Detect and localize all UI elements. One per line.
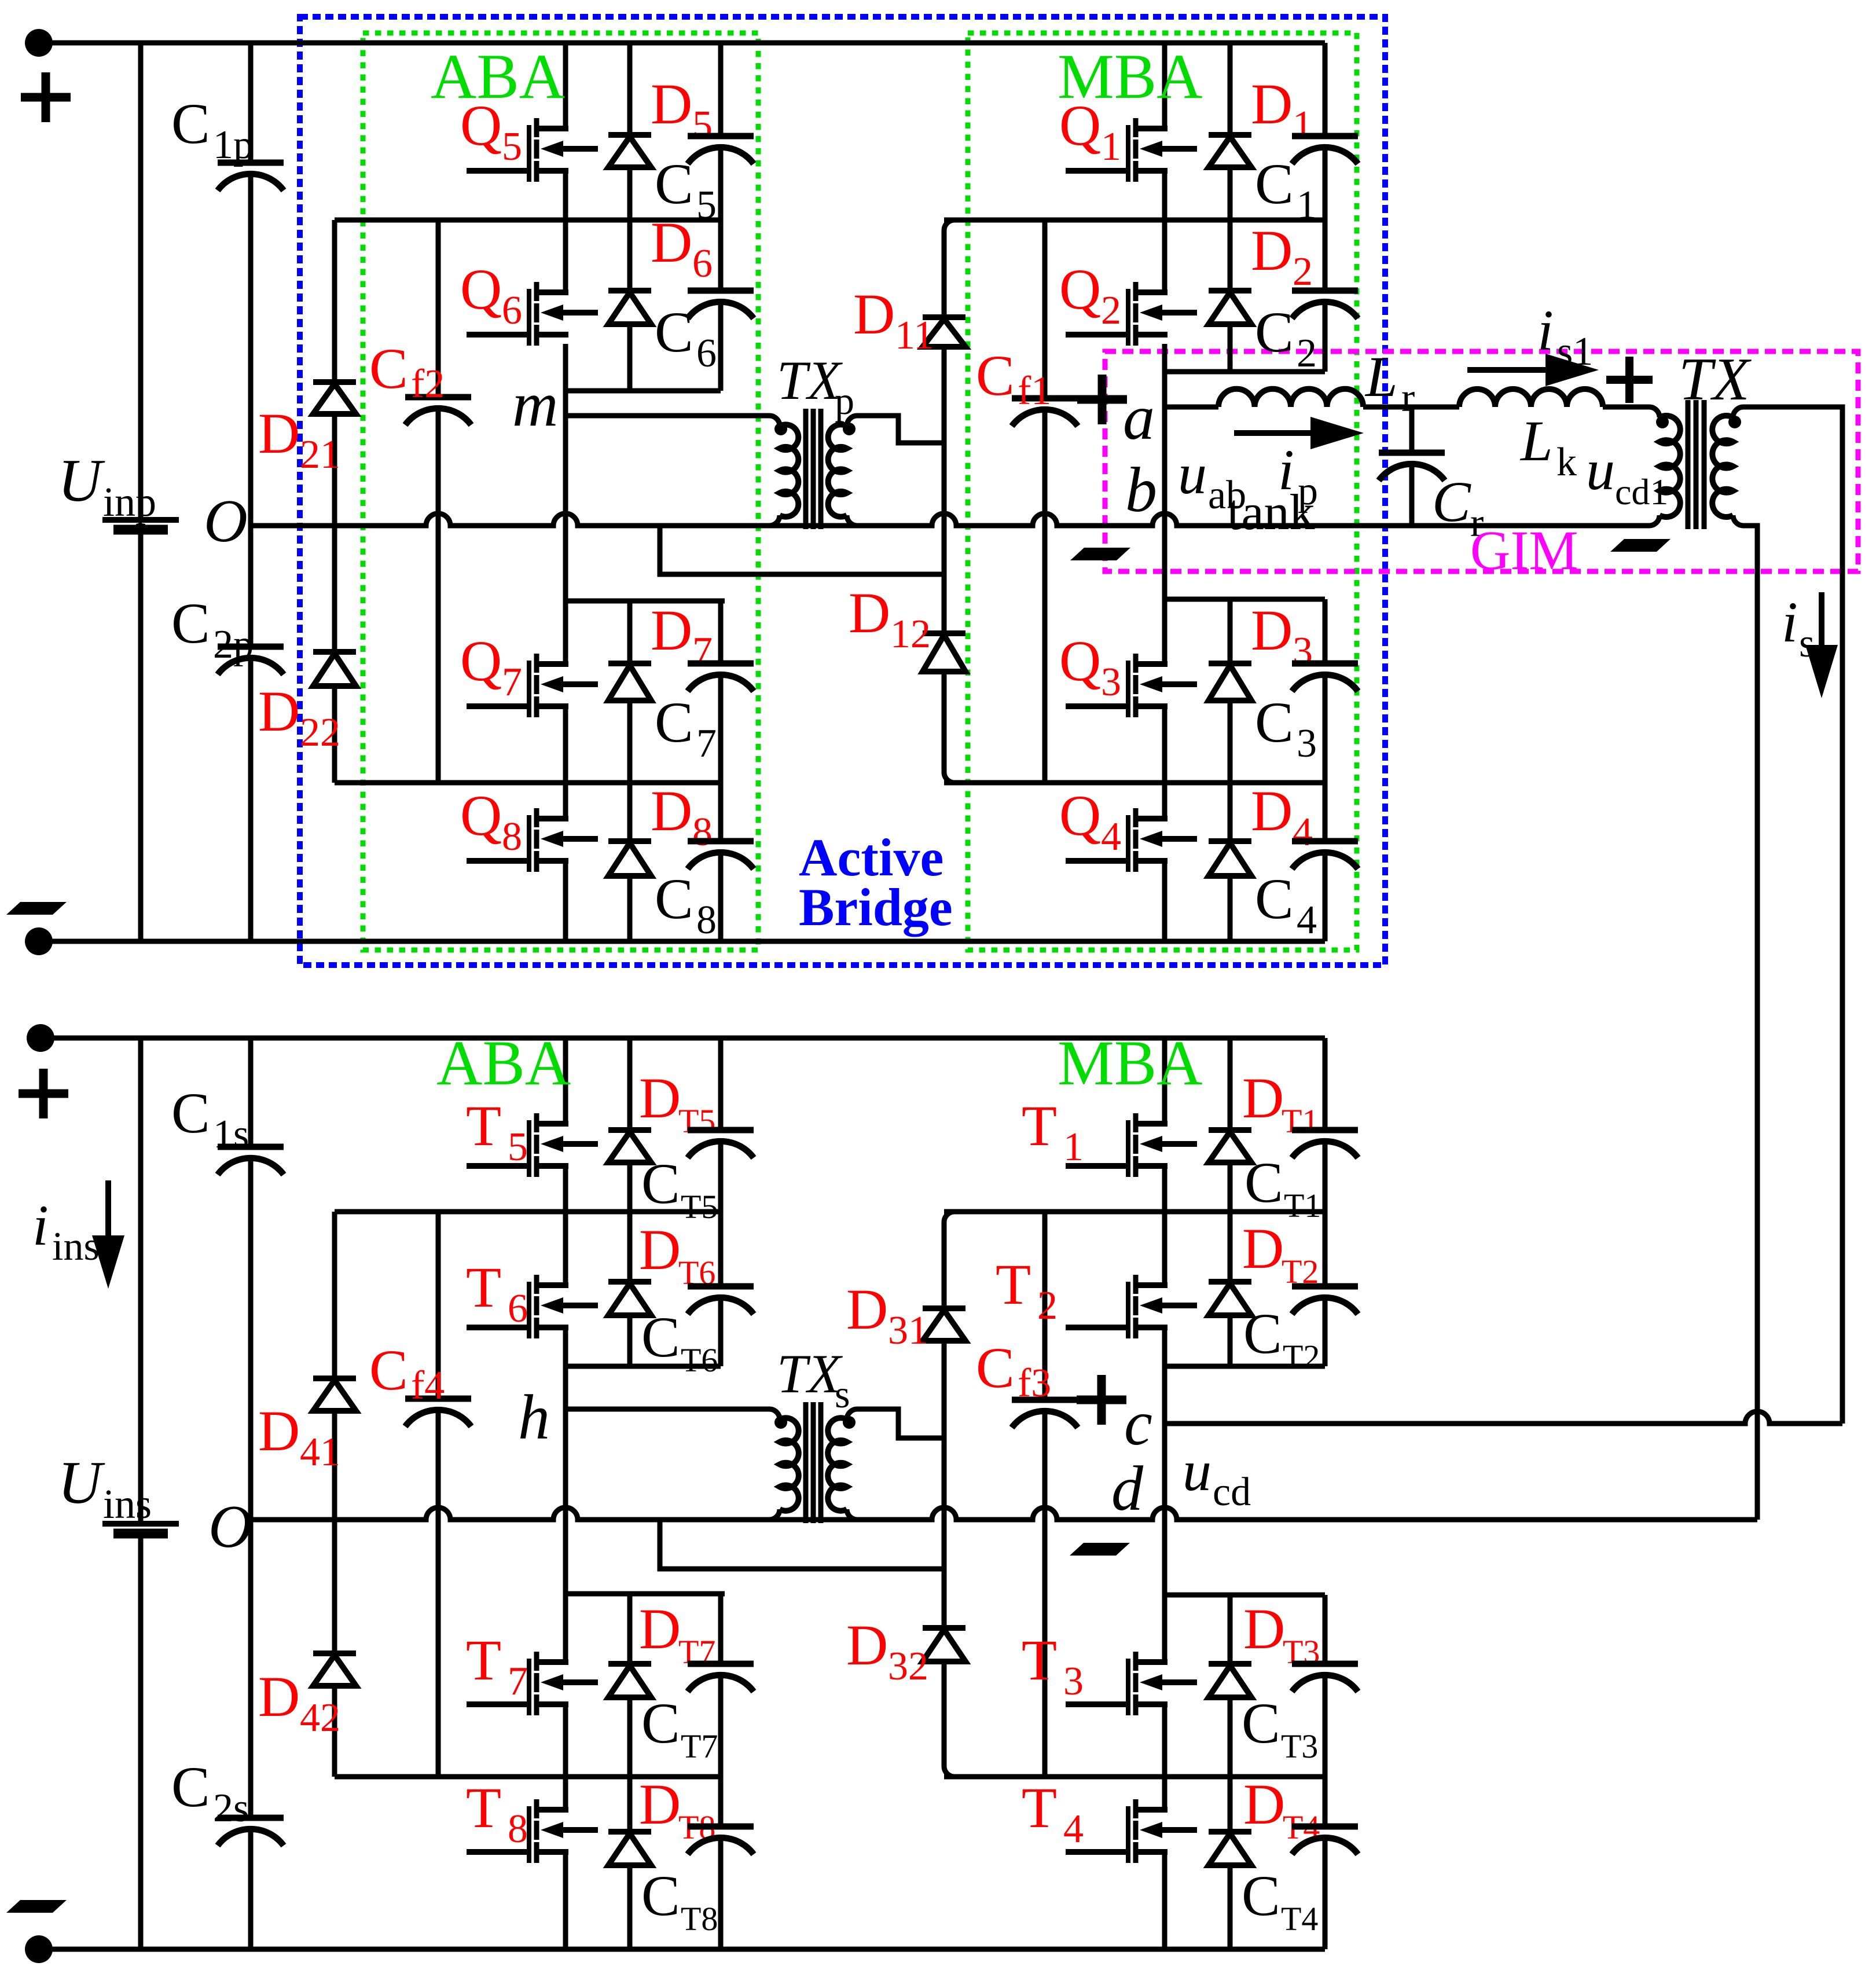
svg-text:42: 42	[300, 1696, 340, 1740]
transistor T7	[527, 1659, 531, 1715]
svg-text:U: U	[58, 446, 105, 514]
diode D8	[627, 783, 633, 841]
svg-text:u: u	[1183, 1439, 1211, 1503]
capacitor CT7	[718, 1594, 724, 1664]
transistor Q4	[1126, 815, 1130, 872]
transformer TXs core	[803, 1402, 809, 1523]
svg-text:1: 1	[1293, 103, 1313, 148]
transformer TX primary winding	[1649, 407, 1660, 417]
wire Lk to TX	[1603, 405, 1649, 410]
wire bottom rail (negative bus, primary)	[39, 939, 1325, 944]
capacitor C7	[718, 601, 724, 663]
transistor T2	[1126, 1282, 1130, 1338]
svg-text:3: 3	[1297, 721, 1317, 766]
svg-text:D: D	[258, 1664, 300, 1729]
wire secondary ABA leg column segments	[563, 1038, 568, 1124]
arrow i_s	[1819, 592, 1824, 663]
svg-text:C: C	[655, 300, 693, 364]
transformer TXp core	[803, 409, 809, 529]
svg-text:8: 8	[508, 1807, 528, 1851]
svg-text:D: D	[849, 581, 890, 645]
wire D3/C3 cell top rail	[1165, 597, 1325, 602]
svg-text:Bridge: Bridge	[799, 878, 953, 937]
wire auxiliary link O-rail to diode column (primary)	[660, 526, 944, 574]
diode D7	[627, 601, 633, 663]
svg-text:D: D	[1243, 1772, 1285, 1836]
svg-text:f4: f4	[411, 1363, 445, 1408]
transformer TXs polarity dots	[774, 1416, 787, 1429]
wire D11-D12 column mid segment	[942, 443, 947, 574]
inductor L_r	[1218, 389, 1363, 407]
wire mid-rail ABA upper (Q5 source / Q6 drain)	[335, 218, 721, 223]
svg-text:1: 1	[1297, 183, 1317, 228]
svg-text:4: 4	[1297, 898, 1317, 942]
capacitor C_f2 column	[436, 220, 441, 397]
svg-text:GIM: GIM	[1470, 519, 1578, 581]
svg-text:C: C	[1243, 1301, 1282, 1366]
arrow i_ins	[105, 1180, 111, 1254]
transformer TXp secondary winding	[847, 416, 857, 426]
svg-text:8: 8	[692, 810, 713, 854]
svg-text:1p: 1p	[213, 123, 254, 167]
svg-text:D: D	[651, 210, 692, 274]
transistor T4	[1126, 1806, 1130, 1863]
svg-text:Q: Q	[460, 783, 502, 848]
diode DT5 with leads	[627, 1038, 633, 1130]
svg-text:s: s	[1799, 621, 1815, 666]
svg-text:2p: 2p	[213, 622, 254, 667]
capacitor C_f1 column	[1042, 220, 1048, 398]
wire m node line	[566, 413, 769, 419]
svg-text:T7: T7	[681, 1727, 718, 1765]
svg-text:D: D	[1251, 218, 1293, 283]
svg-text:MBA: MBA	[1058, 41, 1203, 112]
svg-text:C: C	[171, 1755, 210, 1819]
svg-text:7: 7	[502, 660, 522, 705]
capacitor CT4	[1323, 1777, 1328, 1826]
svg-text:D: D	[258, 679, 300, 743]
svg-text:T: T	[1022, 1094, 1057, 1158]
transformer TX polarity dots	[1656, 416, 1669, 428]
wire TX secondary top lead to is line	[1743, 407, 1842, 1424]
svg-text:TX: TX	[1679, 345, 1752, 413]
capacitor CT8	[718, 1777, 724, 1826]
svg-text:ABA: ABA	[431, 41, 565, 112]
transistor T8	[527, 1806, 531, 1863]
wire Lr to Cr junction	[1363, 405, 1459, 410]
svg-text:T1: T1	[1284, 1187, 1321, 1224]
svg-text:k: k	[1556, 440, 1577, 485]
svg-text:1s: 1s	[213, 1112, 249, 1157]
svg-text:8: 8	[502, 815, 522, 859]
svg-text:p: p	[835, 379, 854, 423]
svg-text:D: D	[639, 1597, 681, 1661]
svg-text:C: C	[1244, 1150, 1283, 1215]
svg-text:3: 3	[1101, 660, 1121, 705]
minus sign u_cd1	[1610, 539, 1671, 552]
svg-text:T: T	[1022, 1776, 1057, 1840]
battery U_ins	[138, 1038, 144, 1521]
capacitor C_2s	[248, 1520, 254, 1818]
plus sign input secondary	[19, 1090, 68, 1098]
svg-text:C: C	[1255, 300, 1294, 364]
svg-text:32: 32	[888, 1644, 928, 1689]
svg-text:D: D	[1243, 1597, 1285, 1661]
diode D2	[1228, 220, 1233, 291]
svg-text:D: D	[846, 1613, 888, 1677]
svg-text:cd: cd	[1213, 1470, 1251, 1514]
svg-text:8: 8	[696, 898, 717, 942]
wire D31-D32 column mid segment	[942, 1438, 947, 1569]
wire mid-rail secondary MBA upper	[944, 1209, 1325, 1215]
svg-text:ins: ins	[52, 1224, 100, 1269]
svg-text:T5: T5	[681, 1188, 718, 1226]
svg-text:T4: T4	[1281, 1900, 1318, 1938]
svg-text:ABA: ABA	[436, 1028, 571, 1098]
minus sign input secondary	[6, 1900, 67, 1913]
wire bottom rail (secondary)	[39, 1947, 1325, 1952]
capacitor C_f3 column	[1042, 1212, 1048, 1400]
svg-text:tank: tank	[1227, 485, 1315, 541]
svg-text:c: c	[1124, 1388, 1152, 1458]
capacitor C8	[718, 783, 724, 841]
diode D41 with column	[332, 1212, 337, 1378]
arrow i_p	[1234, 430, 1329, 436]
capacitor C4	[1323, 783, 1328, 841]
svg-text:f1: f1	[1018, 369, 1051, 413]
svg-text:i: i	[32, 1193, 49, 1257]
svg-text:D: D	[651, 72, 692, 136]
svg-text:C: C	[1432, 470, 1471, 534]
svg-text:D: D	[1251, 598, 1293, 662]
capacitor C_r	[1409, 407, 1415, 453]
svg-text:C: C	[171, 1081, 210, 1145]
capacitor C_1p	[248, 43, 254, 163]
svg-text:ins: ins	[103, 1481, 152, 1527]
svg-text:Q: Q	[460, 629, 502, 693]
svg-text:u: u	[1586, 438, 1615, 502]
svg-text:cd1: cd1	[1615, 471, 1668, 512]
capacitor C_2p	[248, 526, 254, 647]
svg-text:f2: f2	[411, 362, 445, 406]
wire h node line	[566, 1407, 769, 1412]
svg-text:D: D	[651, 779, 692, 843]
svg-text:5: 5	[696, 183, 717, 228]
svg-text:m: m	[512, 369, 558, 439]
battery U_inp	[138, 43, 144, 517]
svg-text:2: 2	[1101, 288, 1121, 333]
svg-text:D: D	[1242, 1066, 1284, 1130]
transformer TXs secondary winding	[847, 1409, 857, 1420]
svg-text:C: C	[976, 1336, 1015, 1400]
svg-text:C: C	[655, 690, 693, 754]
transistor Q5	[527, 125, 531, 182]
capacitor CT5	[718, 1038, 724, 1130]
svg-text:3: 3	[1293, 629, 1313, 674]
capacitor C_f4 column	[436, 1212, 441, 1399]
green dashed box ABA (primary)	[363, 33, 758, 950]
capacitor C_1s	[248, 1038, 254, 1147]
svg-text:D: D	[639, 1772, 681, 1836]
svg-text:T1: T1	[1282, 1102, 1319, 1140]
minus sign u_cd	[1070, 1543, 1130, 1556]
svg-text:T: T	[466, 1628, 501, 1692]
svg-text:T6: T6	[681, 1341, 718, 1379]
svg-text:D: D	[258, 1399, 300, 1463]
svg-text:1: 1	[1101, 124, 1121, 169]
diode D22	[313, 649, 356, 655]
svg-text:C: C	[1242, 1864, 1280, 1928]
svg-text:C: C	[369, 336, 408, 401]
wire secondary MBA leg column segments	[1162, 1038, 1168, 1124]
svg-text:12: 12	[890, 612, 931, 656]
svg-text:C: C	[1255, 867, 1294, 931]
svg-text:O: O	[204, 487, 248, 555]
diode DT1 with leads	[1228, 1038, 1233, 1130]
svg-text:C: C	[655, 152, 693, 216]
svg-text:MBA: MBA	[1058, 1028, 1203, 1098]
diode DT4	[1228, 1777, 1233, 1832]
svg-text:T: T	[996, 1252, 1031, 1316]
wire TXp secondary top lead	[857, 416, 944, 443]
capacitor CT1	[1323, 1038, 1328, 1130]
wire DT7/CT7 cell top rail	[566, 1591, 725, 1597]
diode D5 with leads	[627, 43, 633, 135]
transformer TX secondary winding	[1733, 407, 1743, 417]
svg-text:T3: T3	[1281, 1727, 1318, 1765]
transistor Q3	[1126, 661, 1130, 717]
diode D11 with column	[944, 220, 954, 317]
svg-text:2s: 2s	[213, 1786, 249, 1831]
diode D4	[1228, 783, 1233, 841]
svg-text:L: L	[1364, 344, 1398, 409]
node: top-left terminal dot	[25, 29, 53, 57]
minus sign input primary	[6, 902, 67, 915]
minus sign u_ab	[1070, 548, 1130, 560]
magenta dashed box GIM	[1105, 351, 1858, 571]
diode D42	[313, 1650, 356, 1656]
svg-text:inp: inp	[103, 479, 156, 525]
wire D6/C6 cell bottom rail	[566, 388, 721, 394]
svg-text:C: C	[1242, 1691, 1280, 1755]
green dashed box MBA (primary)	[968, 33, 1357, 950]
svg-text:2: 2	[1037, 1283, 1058, 1328]
diode DT3	[1228, 1595, 1233, 1664]
wire DT2/CT2 cell bottom rail	[1165, 1364, 1325, 1369]
transistor Q6	[527, 289, 531, 346]
capacitor C1	[1323, 43, 1328, 136]
capacitor C3	[1323, 599, 1328, 663]
diode D32	[942, 1569, 947, 1628]
svg-text:T: T	[1022, 1628, 1057, 1692]
wire auxiliary link O-rail to diode column (secondary)	[660, 1520, 944, 1569]
node: bottom-left dot (secondary)	[25, 1935, 53, 1963]
wire MBA leg column segments	[1162, 43, 1168, 129]
svg-text:s: s	[835, 1372, 850, 1416]
svg-text:6: 6	[692, 241, 713, 286]
svg-text:s1: s1	[1557, 329, 1593, 374]
diode DT8	[627, 1777, 633, 1832]
wire mid-rail secondary ABA upper	[335, 1209, 721, 1215]
svg-text:D: D	[846, 1277, 888, 1341]
svg-text:a: a	[1123, 382, 1155, 453]
transistor T1	[1126, 1120, 1130, 1177]
svg-text:d: d	[1111, 1453, 1144, 1524]
svg-text:41: 41	[300, 1430, 340, 1474]
svg-text:D: D	[1251, 72, 1293, 136]
svg-text:T8: T8	[681, 1900, 718, 1938]
svg-text:T: T	[466, 1776, 501, 1840]
svg-text:5: 5	[502, 124, 522, 169]
transistor Q7	[527, 661, 531, 717]
transformer TXs primary winding	[769, 1409, 780, 1420]
wire O rail (secondary) / d rail	[251, 1507, 1757, 1520]
svg-text:7: 7	[692, 629, 713, 674]
svg-text:3: 3	[1063, 1659, 1084, 1704]
svg-text:6: 6	[696, 331, 717, 376]
svg-text:D: D	[853, 282, 895, 346]
svg-text:T5: T5	[678, 1102, 715, 1140]
wire mid-rail MBA upper (Q1 source / Q2 drain)	[944, 218, 1325, 223]
svg-text:7: 7	[696, 721, 717, 766]
svg-text:C: C	[641, 1151, 680, 1216]
node: lower-left terminal dot (secondary)	[27, 1024, 54, 1052]
transistor Q2	[1126, 289, 1130, 346]
diode DT2	[1228, 1212, 1233, 1282]
svg-text:i: i	[1537, 298, 1554, 362]
svg-text:h: h	[518, 1382, 550, 1453]
wire TX secondary bottom lead down	[1743, 526, 1757, 1520]
svg-text:D: D	[639, 1066, 681, 1130]
diode DT7	[627, 1594, 633, 1664]
svg-text:D: D	[1251, 779, 1293, 843]
capacitor CT3	[1323, 1595, 1328, 1664]
svg-text:4: 4	[1101, 815, 1121, 859]
blue dashed box Active Bridge	[300, 17, 1385, 965]
wire TXs secondary top lead	[857, 1409, 944, 1438]
svg-text:C: C	[171, 91, 210, 156]
svg-text:7: 7	[508, 1659, 528, 1704]
svg-text:4: 4	[1063, 1807, 1084, 1851]
svg-text:C: C	[1255, 152, 1294, 216]
wire mid-rail secondary ABA lower	[335, 1774, 721, 1780]
plus sign u_cd	[1077, 1396, 1126, 1404]
diode D31 with column	[944, 1212, 954, 1308]
svg-text:C: C	[655, 867, 693, 931]
wire ABA leg column segments	[563, 43, 568, 129]
svg-text:D: D	[651, 598, 692, 662]
svg-text:U: U	[58, 1448, 105, 1516]
svg-text:D: D	[639, 1217, 681, 1282]
svg-text:O: O	[208, 1492, 252, 1560]
wire O rail (primary midpoint)	[251, 513, 1649, 526]
svg-text:i: i	[1782, 590, 1798, 654]
svg-text:f3: f3	[1018, 1361, 1051, 1406]
diode D6	[627, 220, 633, 291]
svg-text:C: C	[171, 591, 210, 655]
wire DT3/CT3 cell top rail	[1165, 1593, 1325, 1598]
plus sign input primary	[21, 93, 71, 102]
svg-text:6: 6	[502, 288, 522, 333]
svg-text:Q: Q	[460, 257, 502, 321]
svg-text:Q: Q	[1059, 783, 1101, 848]
svg-text:21: 21	[300, 432, 340, 477]
diode D21 with column	[332, 220, 337, 382]
svg-text:Q: Q	[1059, 629, 1101, 693]
wire mid-rail MBA lower (Q3 source / Q4 drain)	[944, 780, 1325, 786]
plus sign u_ab	[1077, 395, 1127, 404]
capacitor CT6	[718, 1212, 724, 1286]
svg-text:T2: T2	[1283, 1338, 1320, 1376]
diode D12	[942, 574, 947, 633]
transformer TXp polarity dots	[774, 423, 787, 435]
svg-text:D: D	[258, 401, 300, 465]
capacitor C6	[718, 220, 724, 291]
svg-text:C: C	[1255, 690, 1294, 754]
svg-text:31: 31	[888, 1308, 928, 1353]
transistor T3	[1126, 1659, 1130, 1715]
svg-text:C: C	[641, 1864, 680, 1928]
svg-text:Q: Q	[1059, 257, 1101, 321]
svg-text:T: T	[466, 1094, 501, 1158]
wire D7/C7 cell top rail	[566, 599, 725, 604]
svg-text:6: 6	[508, 1286, 528, 1331]
node: bottom-left terminal dot	[25, 927, 53, 955]
transformer TXp primary winding	[769, 416, 780, 426]
capacitor CT2	[1323, 1212, 1328, 1286]
svg-text:C: C	[976, 343, 1015, 408]
wire mid-rail ABA lower (Q7 source / Q8 drain)	[335, 780, 721, 786]
svg-text:D: D	[1242, 1216, 1284, 1281]
wire D2/C2 cell bottom rail	[1165, 369, 1325, 375]
wire c node line to TX secondary	[1165, 1411, 1842, 1424]
svg-text:C: C	[641, 1691, 680, 1755]
capacitor C5	[718, 43, 724, 136]
plus sign u_cd1	[1606, 376, 1653, 384]
svg-text:TX: TX	[777, 350, 843, 411]
svg-text:2: 2	[1293, 250, 1313, 294]
svg-text:5: 5	[508, 1125, 528, 1169]
wire mid-rail secondary MBA lower	[944, 1774, 1325, 1780]
capacitor C2	[1323, 220, 1328, 291]
wire a node line to tank	[1165, 405, 1218, 410]
svg-text:TX: TX	[777, 1343, 843, 1404]
arrow i_s1	[1467, 367, 1564, 373]
diode D3	[1228, 599, 1233, 663]
transistor T6	[527, 1282, 531, 1338]
svg-text:5: 5	[692, 103, 713, 148]
transistor T5	[527, 1120, 531, 1177]
svg-text:11: 11	[895, 313, 934, 358]
svg-text:1: 1	[1063, 1125, 1084, 1169]
diode DT6	[627, 1212, 633, 1282]
wire top rail (positive bus, primary)	[39, 41, 1325, 46]
transformer TX core	[1686, 400, 1691, 529]
svg-text:T: T	[466, 1255, 501, 1319]
wire DT6/CT6 cell bottom rail	[566, 1364, 721, 1369]
wire top rail (secondary)	[41, 1036, 1325, 1041]
diode D1 with leads	[1228, 43, 1233, 135]
inductor L_k	[1459, 389, 1603, 407]
svg-text:b: b	[1125, 454, 1157, 525]
svg-text:4: 4	[1293, 810, 1313, 854]
transistor Q1	[1126, 125, 1130, 182]
svg-text:22: 22	[300, 710, 340, 755]
svg-text:L: L	[1519, 409, 1553, 473]
svg-text:C: C	[641, 1305, 680, 1369]
svg-text:u: u	[1178, 442, 1207, 506]
transistor Q8	[527, 815, 531, 872]
